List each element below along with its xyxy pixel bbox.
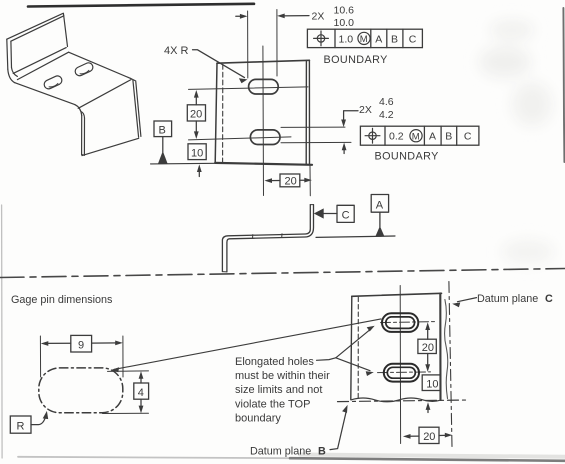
gaged top slot boundary [382,313,418,332]
scan shadow bottom [18,457,290,458]
svg-text:20: 20 [422,342,434,354]
dim 20 bottom right [403,434,411,439]
dim 4 [108,370,149,373]
gaged part bend line dashed [357,297,359,399]
feature control frame 1 [307,29,422,47]
svg-text:20: 20 [190,109,202,121]
dim 4.6 4.2 extension lines [281,126,345,128]
3D bracket sketch flange [7,13,68,46]
svg-text:Datum plane: Datum plane [250,446,311,458]
position symbol [317,35,324,42]
svg-text:1.0: 1.0 [339,33,354,45]
svg-text:boundary: boundary [235,413,281,425]
svg-text:20: 20 [285,175,297,187]
svg-text:10: 10 [191,147,203,159]
svg-text:R: R [17,421,25,433]
svg-text:4.2: 4.2 [379,109,394,121]
svg-text:C: C [342,210,350,222]
datum R label [10,416,31,433]
datum plane B chain line [338,400,470,402]
svg-text:Elongated holes: Elongated holes [235,356,314,368]
svg-text:A: A [375,33,382,45]
side view profile [222,205,310,272]
dim 10 left [188,144,206,160]
svg-text:B: B [391,33,398,45]
dim 20 bottom [309,166,311,196]
datum B [154,121,172,137]
dim 10.6 10.0 extension lines [247,11,249,78]
svg-text:10.6: 10.6 [334,5,355,17]
3D bracket slot 1 [43,74,64,90]
datum C symbol [314,208,324,218]
svg-text:BOUNDARY: BOUNDARY [324,54,388,66]
svg-text:violate the TOP: violate the TOP [235,398,310,410]
svg-text:10: 10 [426,378,438,390]
break edge wavy right [445,300,448,399]
svg-text:M: M [360,34,368,45]
break edge wavy bottom [351,398,441,402]
datum A surface line [316,236,395,237]
upper slot centerline [189,87,309,90]
phantom separator line [0,269,565,278]
svg-text:A: A [429,131,436,143]
svg-text:4.6: 4.6 [379,96,394,108]
svg-text:B: B [445,131,452,143]
3D bracket plate-skirt bend [75,105,82,116]
scan edge left [1,205,3,458]
top slot centerline [381,322,436,323]
svg-text:B: B [159,124,166,136]
svg-text:C: C [545,293,553,305]
gaged part top edge [352,293,442,296]
datum A symbol [371,195,388,213]
gaged part left edge [351,296,352,399]
long leader to gage pin [114,319,381,370]
svg-text:2X: 2X [359,104,372,116]
svg-text:B: B [318,446,326,458]
dim 9 [39,336,41,377]
note leader lines [317,358,336,361]
modifier M circled [358,32,370,44]
svg-text:20: 20 [423,431,435,443]
lower slot centerline [189,137,292,140]
position symbol [369,132,376,139]
top view slot upper [249,79,279,94]
scan smudges [479,20,554,264]
3D bracket flange-plate bend [8,69,15,83]
svg-text:C: C [464,131,472,143]
gaged bottom slot boundary [384,364,419,382]
gage pin outline phantom [39,368,123,413]
3D bracket plate edges [15,83,75,105]
dim 20 vertical right [425,322,430,330]
bottom slot centerline [378,371,431,374]
svg-text:C: C [409,33,417,45]
svg-text:BOUNDARY: BOUNDARY [375,151,439,163]
scan edge right [563,8,564,162]
slots vertical centerline [399,286,401,444]
dim 20 left [195,94,197,105]
svg-text:4X R: 4X R [164,45,189,57]
svg-text:A: A [376,199,384,211]
3D bracket front skirt [81,115,83,154]
svg-text:2X: 2X [312,11,325,23]
svg-text:must be within their: must be within their [235,370,330,382]
scan border top [28,4,254,7]
dim 10 right [422,375,440,391]
bottom edge extension [151,162,216,165]
datum plane C chain line [449,282,452,447]
svg-text:M: M [412,131,420,142]
modifier M circled [410,130,422,142]
bend tick marks [252,235,254,239]
top view outline [217,60,309,63]
svg-text:0.2: 0.2 [389,131,404,143]
svg-text:9: 9 [78,339,84,351]
vertical centerline [262,46,265,196]
gaged part right edge [439,293,441,399]
feature control frame 2 [360,126,479,145]
svg-text:10.0: 10.0 [334,17,355,29]
svg-text:4: 4 [138,387,144,399]
svg-text:Gage pin dimensions: Gage pin dimensions [11,294,113,306]
top view slot lower [250,130,280,145]
top view bend line dashed [222,65,224,163]
svg-text:Datum plane: Datum plane [477,293,538,305]
svg-text:size limits and not: size limits and not [235,384,322,396]
3D bracket slot 2 [74,61,95,77]
